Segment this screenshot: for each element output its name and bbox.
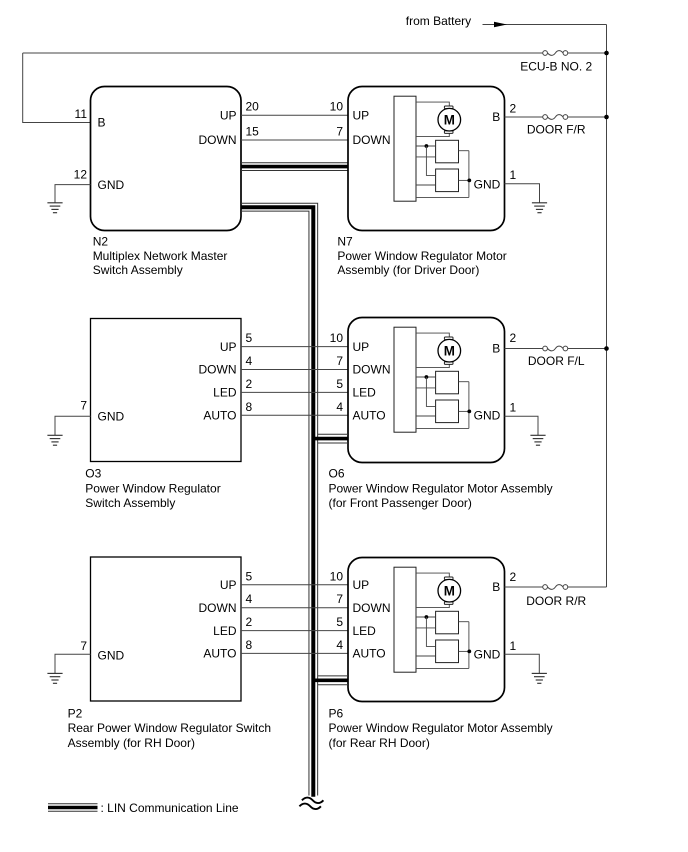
wire block bottom P6 [416, 667, 469, 669]
wire LIN segment N2 to N7 [241, 163, 348, 171]
svg-text:10: 10 [330, 100, 344, 114]
svg-text:DOWN: DOWN [353, 601, 391, 615]
legend LIN line sample [48, 804, 98, 812]
wire LED P2 to P6 [241, 630, 348, 632]
svg-text:2: 2 [510, 101, 517, 115]
wire sensor2 out N7 [459, 179, 470, 181]
wire sensor ground bus O6 [468, 382, 470, 429]
svg-text:from Battery: from Battery [406, 14, 471, 28]
junction DOOR F/L to feed [604, 346, 609, 351]
wire P6 B to fuse DOOR R/R [505, 586, 607, 588]
wire LED O3 to O6 [241, 391, 348, 393]
wire UP P2 to P6 [241, 584, 348, 586]
svg-text:GND: GND [98, 409, 125, 423]
svg-text:DOWN: DOWN [199, 601, 237, 615]
svg-text:M: M [444, 113, 455, 128]
junction GND O6 [467, 410, 471, 414]
wire N7 pin 1 to ground [505, 184, 540, 203]
wire to sensor1 upper N7 [416, 145, 436, 147]
fuse DOOR F/L [543, 346, 568, 351]
fuse DOOR R/R [543, 585, 568, 590]
wire to motor top N7 [416, 102, 449, 106]
svg-text:7: 7 [336, 592, 343, 606]
wire O3 GND to ground [55, 416, 91, 435]
fuse ECU-B NO. 2 [543, 51, 568, 56]
svg-text:M: M [444, 344, 455, 359]
svg-text:: LIN Communication Line: : LIN Communication Line [101, 801, 239, 815]
svg-text:20: 20 [246, 100, 260, 114]
svg-text:11: 11 [75, 107, 88, 121]
wire DOWN O3 to O6 [241, 369, 348, 371]
svg-text:LED: LED [213, 386, 237, 400]
wire AUTO O3 to O6 [241, 414, 348, 416]
svg-text:GND: GND [474, 409, 501, 423]
svg-text:2: 2 [510, 570, 517, 584]
svg-text:8: 8 [246, 400, 253, 414]
svg-text:M: M [444, 584, 455, 599]
wire N7 B to fuse DOOR F/R [505, 116, 607, 118]
svg-text:4: 4 [246, 354, 253, 368]
wire DOWN P2 to P6 [241, 607, 348, 609]
svg-text:GND: GND [474, 648, 501, 662]
sensor block 2 P6 [436, 640, 459, 663]
junction sensor feed O6 [425, 375, 429, 379]
wire O6 pin 1 to ground [505, 416, 539, 435]
wire to motor bottom N7 [416, 133, 449, 136]
connector O3 Power Window Regulator Switch Assembly [91, 319, 242, 462]
svg-text:DOWN: DOWN [199, 363, 237, 377]
wire UP N2 to N7 [241, 114, 348, 116]
wire to sensor1 lower N7 [416, 156, 436, 158]
ECU block N7 [394, 96, 416, 201]
wire LIN branch to O6 [313, 434, 348, 443]
wire junction to sensor2 N7 [426, 146, 435, 175]
junction GND P6 [467, 650, 471, 654]
svg-text:B: B [492, 580, 500, 594]
svg-text:UP: UP [353, 108, 370, 122]
svg-text:LED: LED [353, 386, 377, 400]
wire block bottom N7 [416, 196, 469, 198]
connector N7 Power Window Regulator Motor Assembly (for Driver Door) [348, 87, 505, 231]
svg-text:2: 2 [246, 377, 253, 391]
svg-text:B: B [492, 342, 500, 356]
svg-text:4: 4 [336, 400, 343, 414]
junction DOOR F/R to feed [604, 115, 609, 120]
wire P6 pin 1 to ground [505, 654, 540, 673]
connector N2 Multiplex Network Master Switch Assembly [91, 87, 242, 231]
svg-text:UP: UP [353, 340, 370, 354]
svg-text:7: 7 [80, 639, 87, 653]
svg-text:DOOR R/R: DOOR R/R [526, 594, 586, 608]
wire battery feed arrow [483, 22, 607, 28]
wire LIN bus from N2 [241, 203, 318, 796]
wire to sensor2 lower O6 [416, 415, 436, 417]
svg-text:7: 7 [336, 125, 343, 139]
svg-text:5: 5 [246, 331, 253, 345]
connector P6 Power Window Regulator Motor Assembly (for Rear RH Door) [348, 558, 505, 702]
motor P6 [438, 577, 461, 604]
wire to sensor2 lower P6 [416, 655, 436, 657]
svg-text:GND: GND [98, 178, 125, 192]
wire AUTO P2 to P6 [241, 652, 348, 654]
svg-text:1: 1 [510, 168, 517, 182]
wire LIN branch to P6 [313, 676, 348, 685]
svg-text:B: B [492, 110, 500, 124]
ground G-O3 [47, 435, 62, 445]
svg-text:5: 5 [246, 569, 253, 583]
svg-text:7: 7 [336, 354, 343, 368]
ground G-N2 [47, 203, 62, 213]
sensor block 1 N7 [436, 140, 459, 163]
ground G-P2 [47, 673, 62, 683]
svg-text:4: 4 [246, 592, 253, 606]
wire break squiggle at LIN bus end [299, 798, 323, 810]
junction sensor feed P6 [425, 615, 429, 619]
svg-text:ECU-B NO. 2: ECU-B NO. 2 [520, 60, 592, 74]
sensor block 2 N7 [436, 169, 459, 192]
wire sensor2 out O6 [459, 410, 470, 412]
ECU block O6 [394, 327, 416, 432]
svg-text:LED: LED [213, 624, 237, 638]
wire O6 B to fuse DOOR F/L [505, 348, 607, 350]
wire P2 GND to ground [55, 654, 91, 673]
junction sensor feed N7 [425, 144, 429, 148]
wire sensor ground bus N7 [468, 151, 470, 198]
svg-text:2: 2 [246, 615, 253, 629]
wire to sensor1 upper P6 [416, 616, 436, 618]
svg-text:15: 15 [246, 125, 260, 139]
sensor block 1 P6 [436, 611, 459, 634]
motor N7 [438, 106, 461, 133]
svg-text:AUTO: AUTO [203, 409, 236, 423]
junction GND N7 [467, 179, 471, 183]
svg-text:5: 5 [336, 615, 343, 629]
wire to N2 pin 11 [23, 53, 91, 123]
ground G-O6 [530, 435, 545, 445]
wire to sensor1 lower P6 [416, 627, 436, 629]
wire sensor1 out N7 [459, 150, 469, 152]
svg-text:8: 8 [246, 638, 253, 652]
wire junction to sensor2 P6 [426, 617, 435, 646]
junction ECU-B to feed [604, 51, 609, 56]
svg-text:10: 10 [330, 331, 344, 345]
wire to sensor1 lower O6 [416, 387, 436, 389]
fuse DOOR F/R [543, 115, 568, 120]
wire to motor top O6 [416, 333, 449, 337]
wire sensor2 out P6 [459, 650, 470, 652]
svg-text:12: 12 [74, 168, 88, 182]
wire UP O3 to O6 [241, 346, 348, 348]
svg-text:DOOR F/L: DOOR F/L [528, 354, 585, 368]
svg-text:4: 4 [336, 638, 343, 652]
svg-text:DOOR F/R: DOOR F/R [527, 122, 586, 136]
wire to sensor1 upper O6 [416, 376, 436, 378]
sensor block 1 O6 [436, 371, 459, 394]
svg-text:UP: UP [220, 340, 237, 354]
svg-text:1: 1 [510, 400, 517, 414]
svg-text:DOWN: DOWN [353, 133, 391, 147]
svg-text:2: 2 [510, 331, 517, 345]
svg-text:1: 1 [510, 639, 517, 653]
sensor block 2 O6 [436, 400, 459, 423]
wire block bottom O6 [416, 427, 469, 429]
svg-text:AUTO: AUTO [353, 409, 386, 423]
ECU block P6 [394, 567, 416, 672]
svg-text:UP: UP [220, 108, 237, 122]
svg-text:UP: UP [220, 578, 237, 592]
wire ECU-B feed horizontal [23, 52, 607, 54]
ground G-P6 [532, 673, 547, 683]
svg-text:7: 7 [80, 399, 87, 413]
svg-text:10: 10 [330, 569, 344, 583]
svg-text:AUTO: AUTO [353, 647, 386, 661]
svg-text:LED: LED [353, 624, 377, 638]
wire to motor bottom O6 [416, 364, 449, 367]
wire sensor ground bus P6 [468, 622, 470, 669]
wire junction to sensor2 O6 [426, 377, 435, 406]
svg-text:DOWN: DOWN [353, 363, 391, 377]
connector P2 Rear Power Window Regulator Switch Assembly (for RH Door) [91, 557, 242, 701]
svg-text:GND: GND [98, 648, 125, 662]
wire N2 pin 12 to ground [55, 185, 91, 203]
svg-text:AUTO: AUTO [203, 647, 236, 661]
wire right feed vertical [606, 25, 608, 588]
svg-text:B: B [98, 116, 106, 130]
svg-text:5: 5 [336, 377, 343, 391]
svg-text:GND: GND [474, 178, 501, 192]
wire DOWN N2 to N7 [241, 139, 348, 141]
wire to motor top P6 [416, 573, 449, 577]
motor O6 [438, 337, 461, 364]
wire sensor1 out P6 [459, 621, 469, 623]
svg-text:DOWN: DOWN [199, 133, 237, 147]
wire sensor1 out O6 [459, 381, 469, 383]
svg-text:UP: UP [353, 578, 370, 592]
wire to motor bottom P6 [416, 604, 449, 607]
wire to sensor2 lower N7 [416, 184, 436, 186]
ground G-N7 [532, 203, 547, 213]
connector O6 Power Window Regulator Motor Assembly (for Front Passenger Door) [348, 318, 505, 463]
